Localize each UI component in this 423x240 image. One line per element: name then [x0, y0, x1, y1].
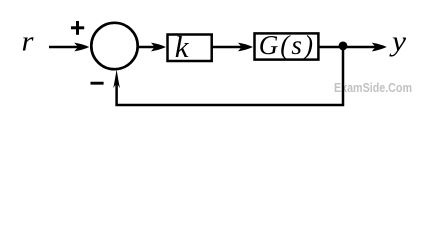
wire G(s) to node: [320, 46, 344, 48]
wire r to summing junction: [49, 46, 79, 48]
minus sign label: [91, 82, 104, 85]
svg-text:k: k: [175, 29, 190, 64]
svg-text:y: y: [389, 27, 407, 58]
svg-text:r: r: [22, 27, 34, 58]
summing junction circle: [91, 23, 137, 69]
plus sign label: [71, 26, 84, 29]
block G(s) box: [255, 33, 319, 59]
arrowhead into summing junction: [74, 43, 89, 52]
block k box: [168, 35, 212, 62]
svg-text:ExamSide.Com: ExamSide.Com: [334, 81, 412, 95]
wire block k to block G(s): [212, 46, 243, 48]
svg-text:G(s): G(s): [259, 30, 315, 60]
wire node to output arrow: [343, 46, 377, 48]
wire summing junction to block k: [139, 46, 157, 48]
arrowhead to y: [372, 43, 387, 52]
node junction dot: [339, 42, 348, 51]
arrowhead into block G(s): [238, 43, 253, 52]
arrowhead into block k: [151, 43, 166, 52]
wire feedback: node down, left along bottom, up to junction: [117, 47, 343, 105]
arrowhead into summing junction bottom: [113, 69, 120, 88]
